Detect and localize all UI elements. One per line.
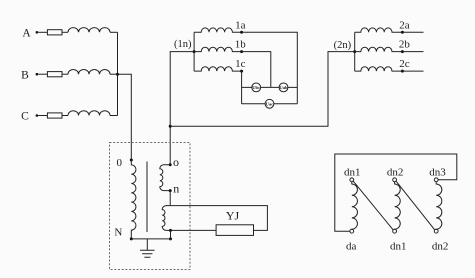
- junction 2a: [401, 31, 404, 34]
- svg-text:0: 0: [116, 157, 122, 169]
- svg-text:N: N: [114, 226, 122, 238]
- winding dn2-dn3: [436, 182, 442, 230]
- wire bottom link: [131, 238, 170, 240]
- wire: [62, 115, 68, 117]
- wire: [110, 73, 118, 75]
- junction 2n: [353, 50, 356, 53]
- svg-text:dn1: dn1: [390, 240, 407, 252]
- terminal B: [36, 73, 39, 76]
- voltmeter Ubc: [252, 83, 261, 92]
- voltmeter Uac: [265, 99, 274, 108]
- junction 2c: [401, 70, 404, 73]
- fuse FA: [47, 30, 62, 35]
- winding 2b: [355, 47, 403, 51]
- wire diagonal dn2-dn2: [396, 181, 435, 230]
- svg-text:1a: 1a: [235, 19, 246, 31]
- wire 1a to meters: [242, 32, 298, 104]
- svg-text:1c: 1c: [235, 58, 246, 70]
- wire: [110, 115, 118, 117]
- svg-text:A: A: [22, 27, 31, 39]
- winding da-dn1: [352, 182, 358, 230]
- wire diagonal dn1-dn1: [353, 181, 393, 230]
- junction 1c: [240, 70, 243, 73]
- wire YJ bottom: [171, 229, 217, 231]
- auxiliary winding: [162, 206, 170, 231]
- svg-text:2a: 2a: [399, 19, 410, 31]
- svg-text:dn3: dn3: [429, 167, 446, 179]
- wire meter row lower: [242, 103, 298, 105]
- svg-text:da: da: [346, 240, 357, 252]
- terminal dn3 top: [434, 178, 438, 182]
- terminal A: [36, 31, 39, 34]
- inductor LA: [68, 28, 110, 33]
- wire phase bus: [117, 32, 119, 115]
- inductor LC: [68, 111, 110, 116]
- junction aux bottom: [169, 229, 172, 232]
- wire meter row upper: [242, 86, 298, 88]
- junction n: [169, 189, 172, 192]
- junction bottom right: [169, 237, 172, 240]
- winding 2a: [355, 28, 403, 32]
- svg-text:1b: 1b: [235, 39, 247, 51]
- svg-text:YJ: YJ: [226, 208, 240, 222]
- wire 2b out: [402, 51, 423, 53]
- resistor YJ: [216, 225, 253, 236]
- svg-text:o: o: [173, 155, 179, 169]
- svg-text:2b: 2b: [399, 39, 411, 51]
- svg-text:(1n): (1n): [174, 39, 192, 50]
- winding 1b: [194, 47, 242, 51]
- junction primary bottom: [130, 237, 133, 240]
- wire YJ top: [170, 206, 267, 231]
- terminal C: [36, 114, 39, 117]
- wire: [38, 73, 47, 75]
- svg-text:n: n: [173, 181, 179, 195]
- svg-text:dn2: dn2: [387, 167, 404, 179]
- transformer TV dashed enclosure: [110, 143, 191, 270]
- inductor LB: [68, 69, 110, 74]
- junction 1n: [193, 50, 196, 53]
- wire stub to primary 0: [118, 74, 132, 160]
- primary winding: [131, 160, 136, 239]
- junction primary top: [130, 159, 133, 162]
- junction B-bus: [116, 73, 119, 76]
- wire: [62, 31, 68, 33]
- wire 2a out: [402, 31, 423, 33]
- svg-text:dn1: dn1: [344, 167, 361, 179]
- terminal dn1 bottom: [393, 229, 397, 233]
- wire dn enclosure left: [335, 154, 457, 231]
- fuse FC: [47, 113, 62, 118]
- svg-text:Ubc: Ubc: [252, 85, 260, 90]
- junction 1b: [240, 50, 243, 53]
- wire: [62, 73, 68, 75]
- core: [146, 162, 148, 233]
- junction 2b: [401, 50, 404, 53]
- winding dn1-dn2: [395, 182, 401, 230]
- junction o: [169, 163, 172, 166]
- voltmeter Uab: [279, 83, 288, 92]
- wire: [110, 31, 118, 33]
- wire aux bottom down: [170, 230, 172, 239]
- winding 2c: [355, 67, 403, 71]
- wire 1b to meters: [242, 52, 271, 88]
- winding 1a: [194, 28, 242, 32]
- secondary winding o-n: [160, 165, 170, 191]
- wire 1c down: [241, 71, 243, 104]
- wire 1n drop: [170, 52, 194, 165]
- svg-text:2c: 2c: [399, 58, 410, 70]
- terminal dn2 bottom: [434, 229, 438, 233]
- svg-text:(2n): (2n): [334, 40, 352, 51]
- fuse FB: [47, 72, 62, 77]
- svg-text:Uac: Uac: [266, 101, 274, 106]
- wire 1n bus: [193, 32, 195, 71]
- junction 1a: [240, 31, 243, 34]
- svg-text:C: C: [21, 111, 29, 123]
- wire: [38, 31, 47, 33]
- wire 2n bus: [354, 32, 356, 71]
- terminal da: [350, 229, 354, 233]
- terminal dn1 top: [350, 178, 354, 182]
- ground: [140, 239, 155, 257]
- wire: [38, 115, 47, 117]
- wire 2c out: [402, 70, 423, 72]
- terminal dn2 top: [393, 178, 397, 182]
- svg-text:dn2: dn2: [432, 240, 449, 252]
- winding 1c: [194, 67, 242, 71]
- svg-text:Uab: Uab: [279, 85, 288, 90]
- wire 2n link to 1n: [170, 52, 355, 127]
- wire n down: [169, 191, 171, 206]
- node 1n-2n junction: [169, 125, 172, 128]
- svg-text:B: B: [21, 69, 29, 81]
